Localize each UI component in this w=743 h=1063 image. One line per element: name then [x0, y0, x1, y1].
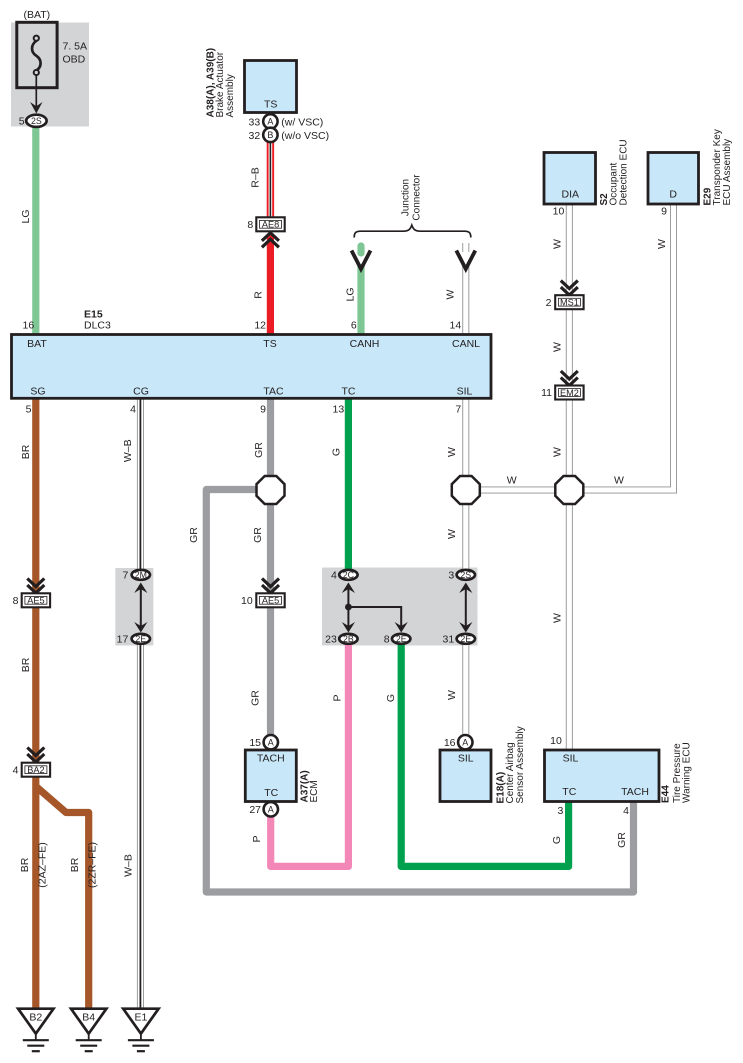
svg-text:16: 16: [23, 320, 35, 332]
svg-text:9: 9: [661, 206, 667, 218]
svg-text:MS1: MS1: [560, 298, 579, 308]
svg-text:LG: LG: [345, 287, 357, 301]
svg-text:15: 15: [249, 737, 261, 749]
svg-text:7: 7: [122, 570, 128, 582]
svg-text:4: 4: [331, 570, 337, 582]
svg-text:3: 3: [557, 805, 563, 817]
svg-text:Warning ECU: Warning ECU: [682, 742, 693, 803]
svg-text:ECM: ECM: [309, 780, 320, 802]
svg-text:G: G: [551, 836, 563, 844]
svg-text:AE8: AE8: [262, 220, 279, 230]
svg-text:W: W: [507, 475, 517, 487]
svg-text:5: 5: [26, 403, 32, 415]
svg-text:12: 12: [254, 320, 266, 332]
svg-text:D: D: [669, 189, 677, 201]
svg-text:SIL: SIL: [458, 753, 474, 765]
svg-text:2S: 2S: [460, 570, 471, 580]
svg-text:G: G: [385, 694, 397, 702]
svg-text:10: 10: [550, 735, 562, 747]
svg-text:7. 5A: 7. 5A: [63, 41, 88, 53]
svg-text:W: W: [552, 447, 564, 457]
svg-text:2E: 2E: [460, 634, 471, 644]
svg-text:W: W: [614, 475, 624, 487]
svg-text:A: A: [268, 805, 274, 815]
svg-text:G: G: [331, 448, 343, 456]
svg-text:8: 8: [384, 634, 390, 646]
svg-text:W: W: [552, 342, 564, 352]
svg-text:ECU Assembly: ECU Assembly: [722, 139, 733, 206]
svg-text:23: 23: [325, 634, 337, 646]
svg-text:TC: TC: [562, 786, 576, 798]
svg-text:DIA: DIA: [562, 189, 580, 201]
svg-text:14: 14: [450, 320, 462, 332]
svg-text:2: 2: [546, 297, 552, 309]
svg-text:W: W: [445, 289, 457, 299]
svg-text:3: 3: [448, 570, 454, 582]
svg-text:CANL: CANL: [452, 338, 480, 350]
svg-text:W–B: W–B: [122, 439, 134, 462]
svg-text:Sensor Assembly: Sensor Assembly: [515, 726, 526, 803]
svg-text:2S: 2S: [31, 116, 42, 126]
svg-text:8: 8: [13, 595, 19, 607]
svg-text:BR: BR: [20, 444, 32, 459]
svg-text:AE5: AE5: [262, 596, 279, 606]
svg-text:5: 5: [19, 115, 25, 127]
svg-text:31: 31: [443, 634, 455, 646]
svg-text:GR: GR: [252, 527, 264, 543]
svg-text:A: A: [268, 737, 274, 747]
svg-text:BR: BR: [69, 857, 81, 872]
svg-text:(w/ VSC): (w/ VSC): [281, 116, 323, 128]
svg-text:(BAT): (BAT): [24, 9, 51, 21]
svg-text:2B: 2B: [343, 634, 354, 644]
svg-text:W: W: [552, 239, 564, 249]
svg-text:R: R: [253, 291, 265, 299]
svg-text:BAT: BAT: [27, 338, 47, 350]
svg-text:Assembly: Assembly: [225, 74, 236, 117]
svg-text:TACH: TACH: [621, 786, 649, 798]
svg-text:W: W: [446, 690, 458, 700]
svg-text:TC: TC: [264, 787, 278, 799]
svg-text:A: A: [462, 737, 468, 747]
svg-text:LG: LG: [20, 209, 32, 223]
svg-text:17: 17: [117, 634, 129, 646]
svg-text:B2: B2: [29, 1012, 42, 1024]
svg-text:W: W: [656, 239, 668, 249]
svg-text:11: 11: [541, 387, 552, 399]
svg-text:6: 6: [351, 320, 357, 332]
svg-text:A: A: [267, 117, 273, 127]
svg-text:EM2: EM2: [560, 388, 579, 398]
svg-text:GR: GR: [616, 832, 628, 848]
svg-text:P: P: [251, 835, 263, 842]
svg-text:33: 33: [249, 116, 261, 128]
svg-text:TS: TS: [264, 99, 277, 111]
svg-text:SIL: SIL: [457, 385, 473, 397]
svg-text:W: W: [446, 447, 458, 457]
svg-text:Junction: Junction: [400, 179, 411, 216]
svg-text:SG: SG: [30, 385, 45, 397]
svg-text:7: 7: [455, 403, 461, 415]
svg-text:4: 4: [130, 403, 136, 415]
svg-text:2M: 2M: [135, 570, 147, 580]
svg-text:GR: GR: [188, 527, 200, 543]
svg-text:W–B: W–B: [123, 854, 135, 877]
svg-text:TACH: TACH: [257, 753, 285, 765]
svg-text:R–B: R–B: [250, 167, 262, 187]
svg-text:TC: TC: [342, 385, 356, 397]
svg-text:E1: E1: [134, 1012, 147, 1024]
svg-text:TS: TS: [263, 338, 276, 350]
svg-text:CG: CG: [133, 385, 149, 397]
svg-text:9: 9: [260, 403, 266, 415]
svg-text:32: 32: [249, 130, 261, 142]
svg-text:CANH: CANH: [350, 338, 380, 350]
svg-text:2E: 2E: [396, 634, 407, 644]
svg-text:Connector: Connector: [411, 174, 422, 221]
svg-text:(2AZ–FE): (2AZ–FE): [37, 842, 49, 888]
svg-text:BR: BR: [20, 657, 32, 672]
svg-text:13: 13: [333, 403, 345, 415]
svg-text:27: 27: [249, 804, 261, 816]
svg-text:Detection ECU: Detection ECU: [618, 139, 629, 205]
svg-text:E44: E44: [661, 785, 672, 803]
svg-text:GR: GR: [253, 442, 265, 458]
svg-text:8: 8: [247, 219, 253, 231]
svg-text:W: W: [446, 529, 458, 539]
svg-text:B: B: [267, 130, 273, 140]
svg-text:10: 10: [241, 595, 253, 607]
svg-text:2E: 2E: [135, 634, 146, 644]
svg-text:P: P: [332, 694, 344, 701]
svg-text:4: 4: [13, 764, 19, 776]
svg-text:TAC: TAC: [263, 385, 284, 397]
svg-text:OBD: OBD: [63, 54, 86, 66]
svg-text:W: W: [552, 613, 564, 623]
svg-text:BA2: BA2: [27, 765, 44, 775]
svg-text:GR: GR: [249, 690, 261, 706]
svg-text:(w/o VSC): (w/o VSC): [281, 130, 329, 142]
svg-text:4: 4: [623, 805, 629, 817]
svg-text:BR: BR: [19, 857, 31, 872]
svg-text:DLC3: DLC3: [84, 320, 111, 332]
svg-text:2C: 2C: [343, 570, 355, 580]
svg-text:B4: B4: [82, 1012, 95, 1024]
svg-text:16: 16: [444, 737, 456, 749]
svg-text:SIL: SIL: [563, 753, 579, 765]
svg-text:(2ZR–FE): (2ZR–FE): [87, 842, 99, 888]
svg-text:10: 10: [553, 206, 565, 218]
svg-text:AE5: AE5: [27, 596, 44, 606]
